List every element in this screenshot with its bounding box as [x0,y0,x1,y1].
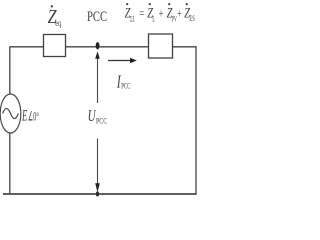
AC source E circle [0,94,21,133]
current arrow I_PCC head [130,58,137,64]
junction blob at bottom rail [96,191,99,196]
AC source sine wave [3,109,19,119]
svg-text:PCC: PCC [87,9,107,25]
label Z_eq [48,5,62,29]
svg-text:E: E [21,107,27,124]
wire left rail lower [9,133,11,194]
svg-text:L: L [152,15,155,24]
label U_PCC [88,106,108,126]
svg-text:+: + [159,6,164,21]
voltage arrow U_PCC lower shaft [97,139,99,187]
svg-text:U: U [88,106,97,125]
label formula Z_sum1 = Z_L + Z_PV + Z_ES [125,3,195,24]
impedance box Z_sum1 [149,34,173,58]
voltage arrow U_PCC upper shaft [97,57,99,104]
current arrow I_PCC shaft [108,60,132,62]
wire right rail [195,46,197,194]
voltage arrow U_PCC lower head [95,183,100,192]
svg-text:∠0°: ∠0° [28,108,39,123]
wire left rail upper [9,46,11,94]
svg-text:PCC: PCC [96,116,107,126]
wire top rail segment 3 [173,46,197,48]
wire top rail segment 1 [10,46,44,48]
svg-text:ES: ES [189,14,194,23]
voltage arrow U_PCC upper head [95,51,100,59]
wire top rail segment 2 (box1 to box2, through PCC) [66,46,149,48]
svg-text:+: + [177,6,182,21]
svg-text:PCC: PCC [121,81,130,91]
label E angle 0 [21,107,38,124]
impedance box Z_eq [44,35,66,57]
svg-text:eq: eq [55,19,61,29]
label I_PCC [116,72,130,92]
svg-text:Σ1: Σ1 [130,15,135,24]
wire bottom rail [3,193,197,195]
svg-text:=: = [139,6,144,21]
node PCC junction dot [96,42,100,49]
